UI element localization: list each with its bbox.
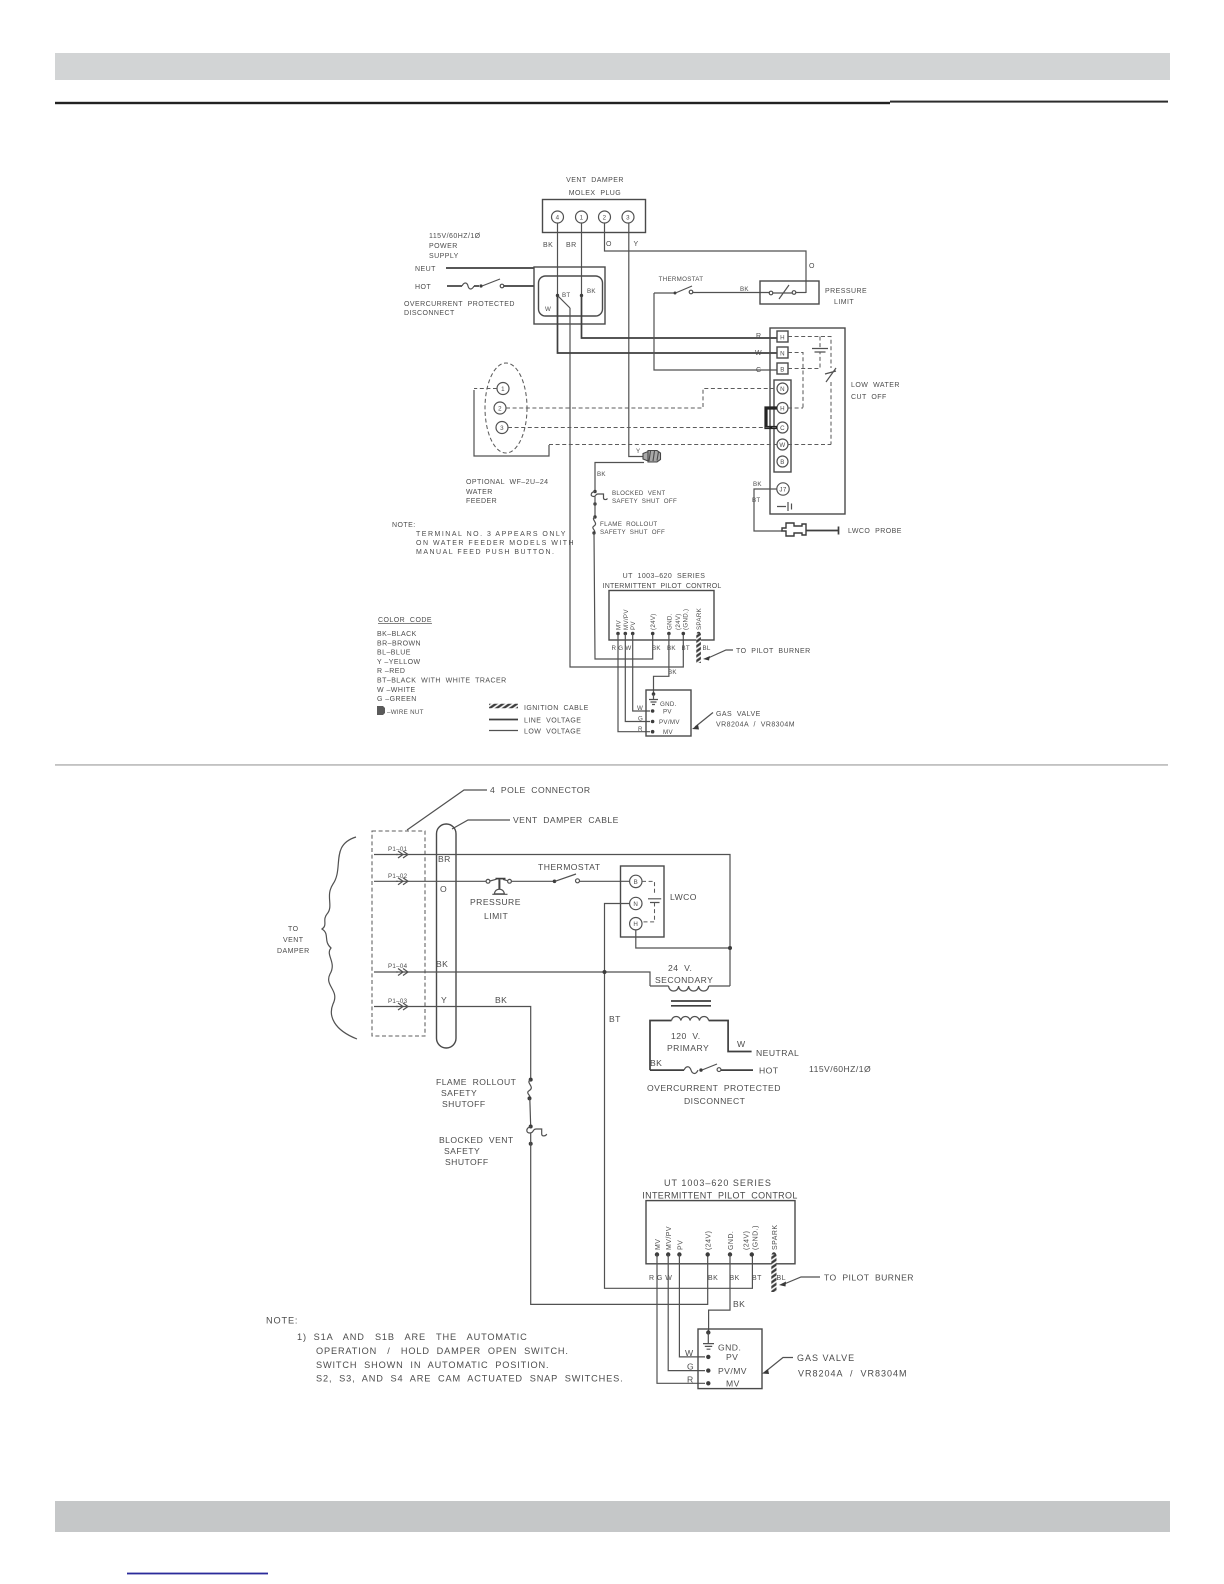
svg-text:W: W <box>737 1039 746 1049</box>
gas valve V1 <box>646 690 691 736</box>
leader to pilot burner <box>779 1273 914 1287</box>
svg-text:NEUT: NEUT <box>415 266 436 273</box>
svg-text:W: W <box>637 705 643 712</box>
svg-text:R –RED: R –RED <box>377 668 405 675</box>
pin 24V <box>706 1231 713 1257</box>
LWCO probe <box>782 523 839 536</box>
svg-text:BT: BT <box>682 645 691 652</box>
svg-text:ON WATER FEEDER MODELS WITH: ON WATER FEEDER MODELS WITH <box>416 540 575 547</box>
page footer bar <box>55 1501 1170 1532</box>
svg-text:GND.: GND. <box>666 613 673 630</box>
wire BT to pilot control (24V)(GND) <box>570 308 683 667</box>
svg-text:CUT OFF: CUT OFF <box>851 394 887 401</box>
note text bottom <box>266 1316 623 1384</box>
pin 3 <box>622 211 634 223</box>
wire pin3 to wire nut <box>629 223 643 457</box>
connector P1 dashed outline <box>372 831 425 1036</box>
wire C from thermostat to terminal B <box>654 293 777 370</box>
svg-text:INTERMITTENT PILOT CONTROL: INTERMITTENT PILOT CONTROL <box>603 583 722 590</box>
svg-text:R: R <box>756 333 762 340</box>
wire nut (Y/BK splice) <box>636 448 661 462</box>
pin P1-02 <box>374 873 408 885</box>
wire PV to valve <box>633 634 650 712</box>
svg-text:BT: BT <box>609 1014 621 1024</box>
LWCO control box <box>770 328 845 514</box>
svg-text:GAS VALVE: GAS VALVE <box>716 711 761 718</box>
svg-text:W: W <box>779 442 785 449</box>
valve MV terminal <box>638 726 673 736</box>
svg-text:BR–BROWN: BR–BROWN <box>377 641 421 648</box>
svg-text:BR: BR <box>566 242 577 249</box>
legend line voltage <box>489 718 581 725</box>
label 4 pole connector with leader <box>407 785 591 830</box>
svg-text:SECONDARY: SECONDARY <box>655 975 713 985</box>
flame rollout switch S2 <box>436 1077 533 1109</box>
svg-text:R G W: R G W <box>612 645 632 652</box>
pin GND <box>728 1231 735 1257</box>
svg-text:1) S1A AND S1B ARE TH: 1) S1A AND S1B ARE THE AUTOMATIC <box>297 1332 528 1342</box>
pin 4 <box>552 211 564 223</box>
svg-text:R: R <box>687 1374 694 1384</box>
node J7 <box>777 483 789 495</box>
fuse + disconnect switch S-hot <box>447 279 534 289</box>
svg-text:THERMOSTAT: THERMOSTAT <box>538 862 601 872</box>
blocked vent switch S3 <box>439 1125 547 1168</box>
svg-text:H: H <box>633 921 638 928</box>
svg-text:PV: PV <box>726 1352 738 1362</box>
svg-text:W: W <box>755 350 762 357</box>
svg-text:R: R <box>638 726 643 733</box>
valve MV terminal <box>687 1374 740 1388</box>
svg-text:SWITCH SHOWN IN AUTOMATIC: SWITCH SHOWN IN AUTOMATIC POSITION. <box>316 1360 549 1370</box>
svg-text:MV: MV <box>726 1379 740 1389</box>
color code legend <box>377 617 507 703</box>
pin SPARK <box>772 1225 779 1257</box>
svg-text:BK: BK <box>436 959 448 969</box>
junction box outer <box>534 267 605 324</box>
svg-text:B: B <box>634 879 638 886</box>
svg-text:MV/PV: MV/PV <box>623 609 630 630</box>
wire R to terminal H <box>582 296 778 339</box>
svg-text:2: 2 <box>603 215 607 222</box>
wire PL to thermostat <box>512 880 554 882</box>
pin MV <box>616 620 623 636</box>
valve PV/MV terminal <box>638 716 680 727</box>
label vent damper cable with leader <box>452 815 619 829</box>
svg-text:OPTIONAL WF–2U–24: OPTIONAL WF–2U–24 <box>466 479 549 486</box>
svg-text:N: N <box>780 386 785 393</box>
svg-text:NOTE:: NOTE: <box>392 522 416 529</box>
svg-text:115V/60HZ/1Ø: 115V/60HZ/1Ø <box>809 1064 871 1074</box>
pin P1-03 <box>374 998 408 1010</box>
svg-text:BLOCKED VENT: BLOCKED VENT <box>612 490 665 497</box>
pin 2 <box>599 211 611 223</box>
svg-text:LIMIT: LIMIT <box>834 299 854 306</box>
svg-text:HOT: HOT <box>415 284 431 291</box>
connector J1 vent damper molex plug <box>543 177 646 233</box>
pressure limit PL1 <box>760 281 819 304</box>
thermostat switch <box>674 286 693 295</box>
pin PV <box>677 1240 684 1257</box>
svg-text:VR8204A / VR8304M: VR8204A / VR8304M <box>798 1369 908 1379</box>
valve GND terminal <box>649 692 677 708</box>
gas valve V1 bottom <box>698 1329 762 1389</box>
svg-text:120 V.: 120 V. <box>671 1031 701 1041</box>
svg-text:PV: PV <box>663 709 672 716</box>
svg-text:(GND.): (GND.) <box>682 609 689 630</box>
svg-text:LOW WATER: LOW WATER <box>851 382 900 389</box>
svg-text:W –WHITE: W –WHITE <box>377 687 416 694</box>
svg-text:PRESSURE: PRESSURE <box>470 897 521 907</box>
svg-text:3: 3 <box>626 215 630 222</box>
legend ignition cable <box>489 705 589 712</box>
svg-text:PV: PV <box>630 621 637 630</box>
svg-text:NOTE:: NOTE: <box>266 1316 298 1326</box>
svg-text:DAMPER: DAMPER <box>277 948 310 955</box>
leader to pilot burner <box>703 648 811 661</box>
wire thermostat to LWCO B <box>580 880 630 882</box>
ignition cable from SPARK <box>771 1255 776 1293</box>
hot disconnect switch <box>650 1064 779 1076</box>
svg-text:UT 1003–620 SERIES: UT 1003–620 SERIES <box>664 1178 772 1188</box>
brace to vent damper <box>322 837 357 1039</box>
terminal B <box>777 363 788 374</box>
svg-text:BT: BT <box>562 292 571 299</box>
svg-text:SAFETY: SAFETY <box>441 1088 477 1098</box>
svg-text:SAFETY SHUT OFF: SAFETY SHUT OFF <box>612 498 677 505</box>
label gas valve <box>692 711 795 730</box>
svg-text:BK: BK <box>652 645 661 652</box>
pin MV <box>655 1239 662 1257</box>
damper switch blade <box>558 296 571 309</box>
svg-text:BL: BL <box>703 645 711 652</box>
pressure limit PL2 <box>470 879 521 921</box>
svg-text:PV/MV: PV/MV <box>659 719 680 726</box>
wire BR P1-01 to transformer <box>396 854 730 986</box>
svg-text:PRIMARY: PRIMARY <box>667 1043 709 1053</box>
note text top <box>392 522 575 556</box>
transformer 120V primary <box>650 1016 799 1070</box>
svg-text:GND.: GND. <box>728 1231 735 1250</box>
svg-text:FLAME ROLLOUT: FLAME ROLLOUT <box>600 521 658 528</box>
svg-text:BK: BK <box>730 1275 740 1282</box>
wire GND to valve, label BK <box>654 634 678 695</box>
svg-text:TERMINAL NO. 3 APPEARS ONLY: TERMINAL NO. 3 APPEARS ONLY <box>416 531 567 538</box>
label overcurrent protected disconnect <box>404 301 515 317</box>
svg-text:SUPPLY: SUPPLY <box>429 253 459 260</box>
valve GND terminal <box>703 1330 741 1352</box>
svg-text:4: 4 <box>556 215 560 222</box>
probe gap symbol <box>777 502 792 511</box>
svg-text:H: H <box>780 335 785 342</box>
svg-text:Y: Y <box>634 241 639 248</box>
svg-text:TO PILOT BURNER: TO PILOT BURNER <box>736 648 811 655</box>
svg-text:O: O <box>809 263 815 270</box>
svg-text:BL: BL <box>777 1275 786 1282</box>
svg-text:O: O <box>440 884 447 894</box>
pin P1-01 <box>374 846 408 858</box>
svg-text:FEEDER: FEEDER <box>466 498 497 505</box>
svg-text:TO PILOT BURNER: TO PILOT BURNER <box>824 1273 914 1283</box>
LWCO box <box>621 866 697 937</box>
wire thermostat to pressure limit, label BK <box>693 286 770 293</box>
svg-text:PRESSURE: PRESSURE <box>825 288 867 295</box>
valve PV/MV terminal <box>687 1362 747 1376</box>
svg-text:PV/MV: PV/MV <box>718 1366 747 1376</box>
label low water cut off <box>851 382 900 401</box>
svg-text:BK: BK <box>733 1299 745 1309</box>
pin 1 <box>576 211 588 223</box>
svg-text:G –GREEN: G –GREEN <box>377 696 417 703</box>
svg-text:N: N <box>633 901 638 908</box>
feeder W return wire <box>474 390 549 456</box>
LWCO internal dashed: H terminal to float switch <box>788 337 831 369</box>
flame rollout switch S2 <box>592 515 596 534</box>
wire J7 to LWCO probe <box>754 489 782 531</box>
pin 24V <box>650 613 657 635</box>
svg-text:COLOR CODE: COLOR CODE <box>378 617 432 624</box>
label 115V power supply <box>429 233 481 260</box>
dashed B terminal to capacitor <box>788 352 820 369</box>
ignition cable from SPARK <box>696 634 701 664</box>
svg-text:LOW VOLTAGE: LOW VOLTAGE <box>524 729 581 736</box>
svg-text:1: 1 <box>580 215 584 222</box>
svg-text:O: O <box>606 241 612 248</box>
wire Y P1-03 to safety chain <box>396 995 531 1078</box>
transformer core <box>671 1001 711 1006</box>
svg-text:4 POLE CONNECTOR: 4 POLE CONNECTOR <box>490 785 591 795</box>
svg-text:BT: BT <box>752 497 761 504</box>
label to vent damper <box>277 926 310 955</box>
dashed N terminal branch <box>788 353 803 409</box>
svg-text:MV/PV: MV/PV <box>666 1226 673 1250</box>
svg-text:SAFETY SHUT OFF: SAFETY SHUT OFF <box>600 529 665 536</box>
wire MV/PV to valve G <box>668 1255 705 1371</box>
svg-text:1: 1 <box>501 386 505 393</box>
feeder terminal 1 <box>497 383 509 395</box>
valve PV terminal <box>637 705 672 716</box>
svg-text:SHUTOFF: SHUTOFF <box>445 1157 489 1167</box>
svg-text:OVERCURRENT PROTECTED: OVERCURRENT PROTECTED <box>404 301 515 308</box>
pin PV <box>630 621 637 636</box>
water feeder dashed ellipse <box>485 363 527 453</box>
svg-text:BR: BR <box>438 854 451 864</box>
svg-text:(GND.): (GND.) <box>752 1225 759 1250</box>
pin GND <box>666 613 673 635</box>
svg-text:GND.: GND. <box>660 701 677 708</box>
header rule left <box>55 102 890 104</box>
svg-text:BK–BLACK: BK–BLACK <box>377 631 417 638</box>
wire between switches <box>594 504 596 517</box>
node BT <box>556 292 571 299</box>
svg-text:LINE VOLTAGE: LINE VOLTAGE <box>524 718 581 725</box>
LWCO terminal N <box>630 897 642 909</box>
svg-text:OPERATION / HOLD DAMPER: OPERATION / HOLD DAMPER OPEN SWITCH. <box>316 1346 569 1356</box>
svg-text:BK: BK <box>587 288 596 295</box>
svg-text:BK: BK <box>650 1058 662 1068</box>
LWCO internal dashed capacitor <box>642 881 661 922</box>
svg-text:VR8204A / VR8304M: VR8204A / VR8304M <box>716 722 795 729</box>
svg-text:BLOCKED VENT: BLOCKED VENT <box>439 1135 514 1145</box>
svg-text:MV: MV <box>616 620 623 630</box>
feeder terminal 3 <box>496 422 508 434</box>
svg-text:W: W <box>545 306 551 313</box>
svg-text:SAFETY: SAFETY <box>444 1146 480 1156</box>
svg-text:GAS VALVE: GAS VALVE <box>797 1353 855 1363</box>
svg-text:N: N <box>780 351 785 358</box>
vent damper cable capsule <box>437 824 457 1048</box>
svg-text:BK: BK <box>708 1275 718 1282</box>
pin 24V GND <box>675 609 690 636</box>
wire BK safety chain <box>595 463 644 492</box>
svg-text:(24V): (24V) <box>650 613 657 630</box>
svg-text:SHUTOFF: SHUTOFF <box>442 1099 486 1109</box>
float switch contact <box>825 368 836 382</box>
svg-text:INTERMITTENT PILOT CONTROL: INTERMITTENT PILOT CONTROL <box>642 1191 797 1201</box>
pilot control U1 <box>603 573 722 640</box>
svg-text:Y: Y <box>636 448 640 455</box>
svg-text:B: B <box>780 367 784 374</box>
dashed wire 3 to C <box>508 427 777 429</box>
label gas valve with leader <box>762 1353 908 1379</box>
svg-text:BK: BK <box>495 995 507 1005</box>
junction dot BR/H <box>728 946 732 950</box>
label blocked vent <box>612 490 677 505</box>
svg-text:H: H <box>780 406 785 413</box>
wire PV to valve W <box>679 1255 705 1357</box>
svg-text:VENT: VENT <box>283 937 304 944</box>
svg-text:NEUTRAL: NEUTRAL <box>756 1048 799 1058</box>
pin MV/PV <box>666 1226 673 1257</box>
svg-text:24 V.: 24 V. <box>668 963 692 973</box>
svg-text:LIMIT: LIMIT <box>484 911 509 921</box>
svg-text:PV: PV <box>677 1240 684 1250</box>
svg-text:(24V): (24V) <box>675 613 682 630</box>
svg-text:MANUAL FEED PUSH BUTTON.: MANUAL FEED PUSH BUTTON. <box>416 549 555 556</box>
valve PV terminal <box>685 1348 738 1362</box>
wire MV to valve R <box>657 1255 705 1384</box>
wire pin1 to junction box <box>581 223 583 296</box>
dashed below float switch to W circle <box>788 382 831 445</box>
terminal N <box>777 347 788 358</box>
svg-text:C: C <box>756 367 762 374</box>
pilot control U1 bottom <box>642 1178 797 1264</box>
svg-text:WATER: WATER <box>466 489 493 496</box>
damper motor inner box <box>539 276 603 316</box>
svg-text:MV: MV <box>655 1239 662 1250</box>
svg-text:3: 3 <box>500 425 504 432</box>
svg-text:GND.: GND. <box>718 1343 741 1353</box>
svg-text:W: W <box>685 1348 694 1358</box>
wire BK P1-04 to transformer <box>396 959 650 986</box>
label optional water feeder <box>466 479 549 505</box>
svg-text:SPARK: SPARK <box>772 1225 779 1250</box>
svg-text:BK: BK <box>668 669 677 676</box>
svg-text:MV: MV <box>663 729 673 736</box>
svg-text:BT: BT <box>752 1275 762 1282</box>
svg-text:Y: Y <box>441 995 447 1005</box>
wire H to transformer junction <box>636 930 730 948</box>
legend low voltage <box>489 729 581 736</box>
terminal H <box>777 331 788 342</box>
label overcurrent protected disconnect <box>647 1083 781 1106</box>
svg-text:FLAME ROLLOUT: FLAME ROLLOUT <box>436 1077 517 1087</box>
svg-text:HOT: HOT <box>759 1066 779 1076</box>
wire N to BT run <box>605 904 753 1289</box>
capacitor element <box>812 349 828 353</box>
svg-text:LWCO PROBE: LWCO PROBE <box>848 528 902 535</box>
thermostat switch <box>538 862 601 883</box>
svg-text:J7: J7 <box>779 487 786 494</box>
svg-text:VENT DAMPER: VENT DAMPER <box>566 177 624 184</box>
wire W to terminal N <box>558 296 778 354</box>
svg-text:UT 1003–620 SERIES: UT 1003–620 SERIES <box>623 573 706 580</box>
svg-text:VENT DAMPER CABLE: VENT DAMPER CABLE <box>513 815 619 825</box>
footer hyperlink underline <box>127 1573 268 1575</box>
wire nut legend symbol <box>377 706 424 716</box>
pin SPARK <box>696 607 703 635</box>
svg-text:–WIRE NUT: –WIRE NUT <box>387 709 424 716</box>
svg-text:BK: BK <box>740 286 749 293</box>
svg-text:DISCONNECT: DISCONNECT <box>404 310 455 317</box>
svg-text:THERMOSTAT: THERMOSTAT <box>659 276 704 283</box>
LWCO terminal B <box>630 875 642 887</box>
svg-text:(24V): (24V) <box>743 1231 750 1250</box>
svg-text:G: G <box>638 716 643 723</box>
dashed stub terminal 1 <box>474 388 497 390</box>
svg-text:2: 2 <box>498 406 502 413</box>
svg-text:(24V): (24V) <box>706 1231 713 1250</box>
dashed wire 2 to N <box>506 389 777 409</box>
page header bar <box>55 53 1170 80</box>
pin 24V GND <box>743 1225 759 1257</box>
wire O P1-02 to pressure limit <box>396 881 486 894</box>
wire MV to valve <box>618 634 650 732</box>
svg-text:115V/60HZ/1Ø: 115V/60HZ/1Ø <box>429 233 481 240</box>
svg-text:B: B <box>780 459 784 466</box>
wire GND to valve, label BK <box>709 1255 746 1332</box>
svg-text:BK: BK <box>597 471 606 478</box>
header rule right <box>890 101 1168 103</box>
label flame rollout <box>600 521 665 536</box>
svg-text:SPARK: SPARK <box>696 607 703 630</box>
wire neutral to junction box <box>446 267 534 269</box>
svg-text:LWCO: LWCO <box>670 892 697 902</box>
svg-text:G: G <box>687 1362 694 1372</box>
mid-page divider rule <box>55 764 1168 765</box>
wire between safety switches <box>529 1098 532 1126</box>
svg-text:OVERCURRENT PROTECTED: OVERCURRENT PROTECTED <box>647 1083 781 1093</box>
svg-text:MOLEX PLUG: MOLEX PLUG <box>569 190 621 197</box>
svg-text:POWER: POWER <box>429 243 458 250</box>
wire MV/PV to valve <box>625 634 650 722</box>
jumper H to C (thick) <box>766 408 777 428</box>
svg-text:BK: BK <box>753 481 762 488</box>
dashed wire to W <box>549 444 777 446</box>
pin MV/PV <box>623 609 630 636</box>
svg-text:BK: BK <box>543 242 553 249</box>
svg-text:BL–BLUE: BL–BLUE <box>377 650 411 657</box>
wire BK to pilot 24V <box>531 1144 708 1305</box>
svg-text:TO: TO <box>288 926 299 933</box>
svg-text:C: C <box>780 425 785 432</box>
transformer T1 24V secondary <box>650 963 730 991</box>
wire BK to pilot (24V) <box>594 533 653 659</box>
feeder terminal 2 <box>494 402 506 414</box>
svg-text:DISCONNECT: DISCONNECT <box>684 1096 746 1106</box>
svg-text:BT–BLACK WITH WHITE TRACER: BT–BLACK WITH WHITE TRACER <box>377 678 507 685</box>
blocked vent switch S3 <box>591 490 607 506</box>
